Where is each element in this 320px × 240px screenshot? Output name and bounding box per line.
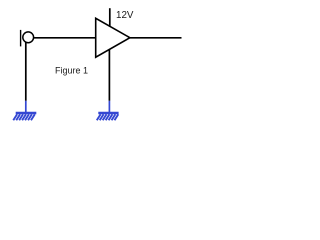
wire mic drop — [25, 42, 27, 101]
wire blue stub right — [108, 101, 110, 113]
svg-text:12V: 12V — [116, 10, 134, 21]
wire output — [130, 37, 182, 39]
wire 12V power pin — [109, 8, 111, 27]
ground left — [13, 113, 36, 120]
wire amp ground pin — [108, 49, 110, 100]
microphone MIC1 — [21, 30, 34, 47]
wire blue stub left — [25, 101, 27, 113]
ground right — [97, 113, 119, 120]
svg-text:Figure 1: Figure 1 — [55, 66, 88, 76]
op-amp U1 — [96, 18, 130, 57]
wire mic to amp input — [34, 37, 96, 39]
